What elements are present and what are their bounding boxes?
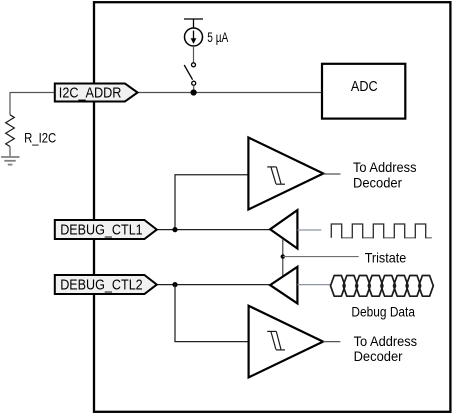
svg-text:R_I2C: R_I2C	[24, 129, 56, 145]
output driver Q1 (left-pointing)	[270, 210, 297, 248]
wire U4 output	[323, 341, 340, 343]
wire DEBUG_CTL1 net	[157, 229, 270, 231]
wire DEBUG_CTL2 net	[157, 284, 270, 286]
resistor R_I2C	[6, 115, 15, 147]
pin I2C_ADDR	[55, 84, 138, 102]
data bus waveform	[331, 276, 434, 297]
label To Address Decoder (top)	[353, 159, 417, 191]
wire current source to switch	[193, 46, 195, 63]
svg-text:Decoder: Decoder	[353, 174, 402, 190]
node on DEBUG_CTL2 net	[172, 282, 177, 287]
ground	[1, 147, 19, 165]
wire DEBUG_CTL2 to buffer U4	[175, 285, 249, 342]
svg-text:DEBUG_CTL1: DEBUG_CTL1	[60, 221, 143, 238]
schmitt buffer U4	[249, 306, 324, 378]
svg-text:To Address: To Address	[354, 333, 418, 349]
device outline box	[94, 2, 450, 412]
tristate node	[281, 254, 285, 258]
clock waveform	[331, 224, 431, 238]
label To Address Decoder (bottom)	[354, 333, 418, 364]
svg-text:DEBUG_CTL2: DEBUG_CTL2	[60, 276, 143, 293]
svg-text:ADC: ADC	[351, 79, 378, 95]
svg-text:To Address: To Address	[353, 159, 417, 175]
schmitt buffer U3	[248, 138, 323, 210]
svg-text:Tristate: Tristate	[365, 249, 407, 265]
svg-text:I2C_ADDR: I2C_ADDR	[59, 84, 122, 101]
wire Q2 to data waveform	[297, 284, 330, 286]
node on I2C_ADDR net	[191, 89, 197, 95]
wire I2C_ADDR to ADC	[137, 92, 322, 94]
output driver Q2 (left-pointing)	[270, 267, 297, 304]
node on DEBUG_CTL1 net	[172, 227, 177, 232]
wire DEBUG_CTL1 to buffer U3	[175, 175, 248, 230]
wire U3 output	[323, 173, 340, 175]
wire I2C_ADDR to R_I2C	[10, 93, 55, 115]
svg-text:Decoder: Decoder	[354, 348, 403, 364]
ADC block U2	[322, 64, 405, 119]
pin DEBUG_CTL1	[55, 220, 157, 239]
tristate control wire (vertical)	[282, 240, 284, 278]
svg-text:Debug Data: Debug Data	[351, 303, 415, 319]
tristate wire (horizontal)	[283, 256, 359, 258]
current source I1	[184, 19, 203, 46]
wire switch to node	[193, 85, 195, 92]
switch S1	[184, 63, 196, 85]
svg-text:5 µA: 5 µA	[207, 29, 228, 45]
wire Q1 to clock waveform	[297, 229, 321, 231]
pin DEBUG_CTL2	[55, 275, 157, 294]
